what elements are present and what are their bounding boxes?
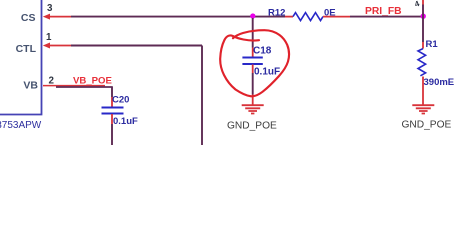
- pin 4 stub (top right): [422, 0, 424, 5]
- wire CS net horizontal: [71, 16, 285, 18]
- svg-text:CS: CS: [21, 12, 36, 24]
- svg-text:R1: R1: [426, 39, 439, 50]
- wire C18 to ground: [252, 73, 254, 95]
- wire C18 branch vertical: [252, 18, 254, 48]
- junction node CS/C18: [250, 13, 255, 18]
- resistor R1 bottom pin to ground: [422, 77, 424, 105]
- pin 2 stub: [43, 85, 105, 87]
- svg-text:1: 1: [46, 32, 52, 43]
- resistor R12 zigzag: [293, 13, 323, 21]
- svg-text:CTL: CTL: [16, 43, 37, 55]
- svg-text:0.1uF: 0.1uF: [113, 116, 138, 127]
- resistor R12 right pin: [323, 16, 350, 18]
- wire VB net vertical to C20: [111, 87, 113, 98]
- ground GND_POE left stub: [252, 95, 254, 105]
- resistor R1 top pin: [422, 42, 424, 49]
- svg-text:VB_POE: VB_POE: [73, 75, 113, 86]
- svg-text:GND_POE: GND_POE: [227, 121, 277, 132]
- capacitor C18 plates: [242, 58, 262, 65]
- capacitor C20 bottom pin: [111, 114, 113, 124]
- ground GND_POE right bars: [412, 105, 434, 113]
- svg-text:C20: C20: [112, 94, 129, 105]
- svg-text:TPS23753APW: TPS23753APW: [0, 120, 42, 131]
- svg-text:C18: C18: [253, 45, 272, 56]
- svg-text:VB: VB: [23, 80, 38, 92]
- capacitor C18 bottom pin: [252, 65, 254, 74]
- resistor R12 left pin: [285, 16, 293, 18]
- capacitor C18 top pin: [252, 48, 254, 58]
- svg-text:PRI_FB: PRI_FB: [365, 6, 402, 17]
- junction node PRI_FB/R1: [421, 14, 426, 19]
- wire C20 down: [111, 124, 113, 145]
- svg-text:0.1uF: 0.1uF: [254, 66, 280, 77]
- pin 3 arrow: [43, 14, 50, 20]
- annotation red circle around C18: [220, 30, 289, 96]
- ground GND_POE left bars: [242, 105, 264, 113]
- svg-text:3: 3: [47, 3, 53, 14]
- wire CTL net horizontal: [71, 45, 202, 47]
- pin 1 arrow: [43, 43, 50, 49]
- svg-text:R12: R12: [268, 7, 285, 18]
- svg-text:390mE: 390mE: [424, 77, 455, 88]
- IC U1 TPS23753APW body edge: [0, 0, 42, 115]
- pin 1 stub: [48, 45, 71, 47]
- capacitor C20 plates: [102, 108, 124, 114]
- svg-text:GND_POE: GND_POE: [402, 119, 452, 130]
- wire CTL net vertical: [201, 46, 203, 146]
- wire junction to R1: [422, 5, 424, 43]
- capacitor C20 top pin: [111, 97, 113, 107]
- wire to PRI_FB node: [350, 16, 423, 18]
- resistor R1 zigzag: [418, 49, 426, 76]
- pin 3 stub: [48, 16, 71, 18]
- wire VB net horizontal: [56, 86, 113, 88]
